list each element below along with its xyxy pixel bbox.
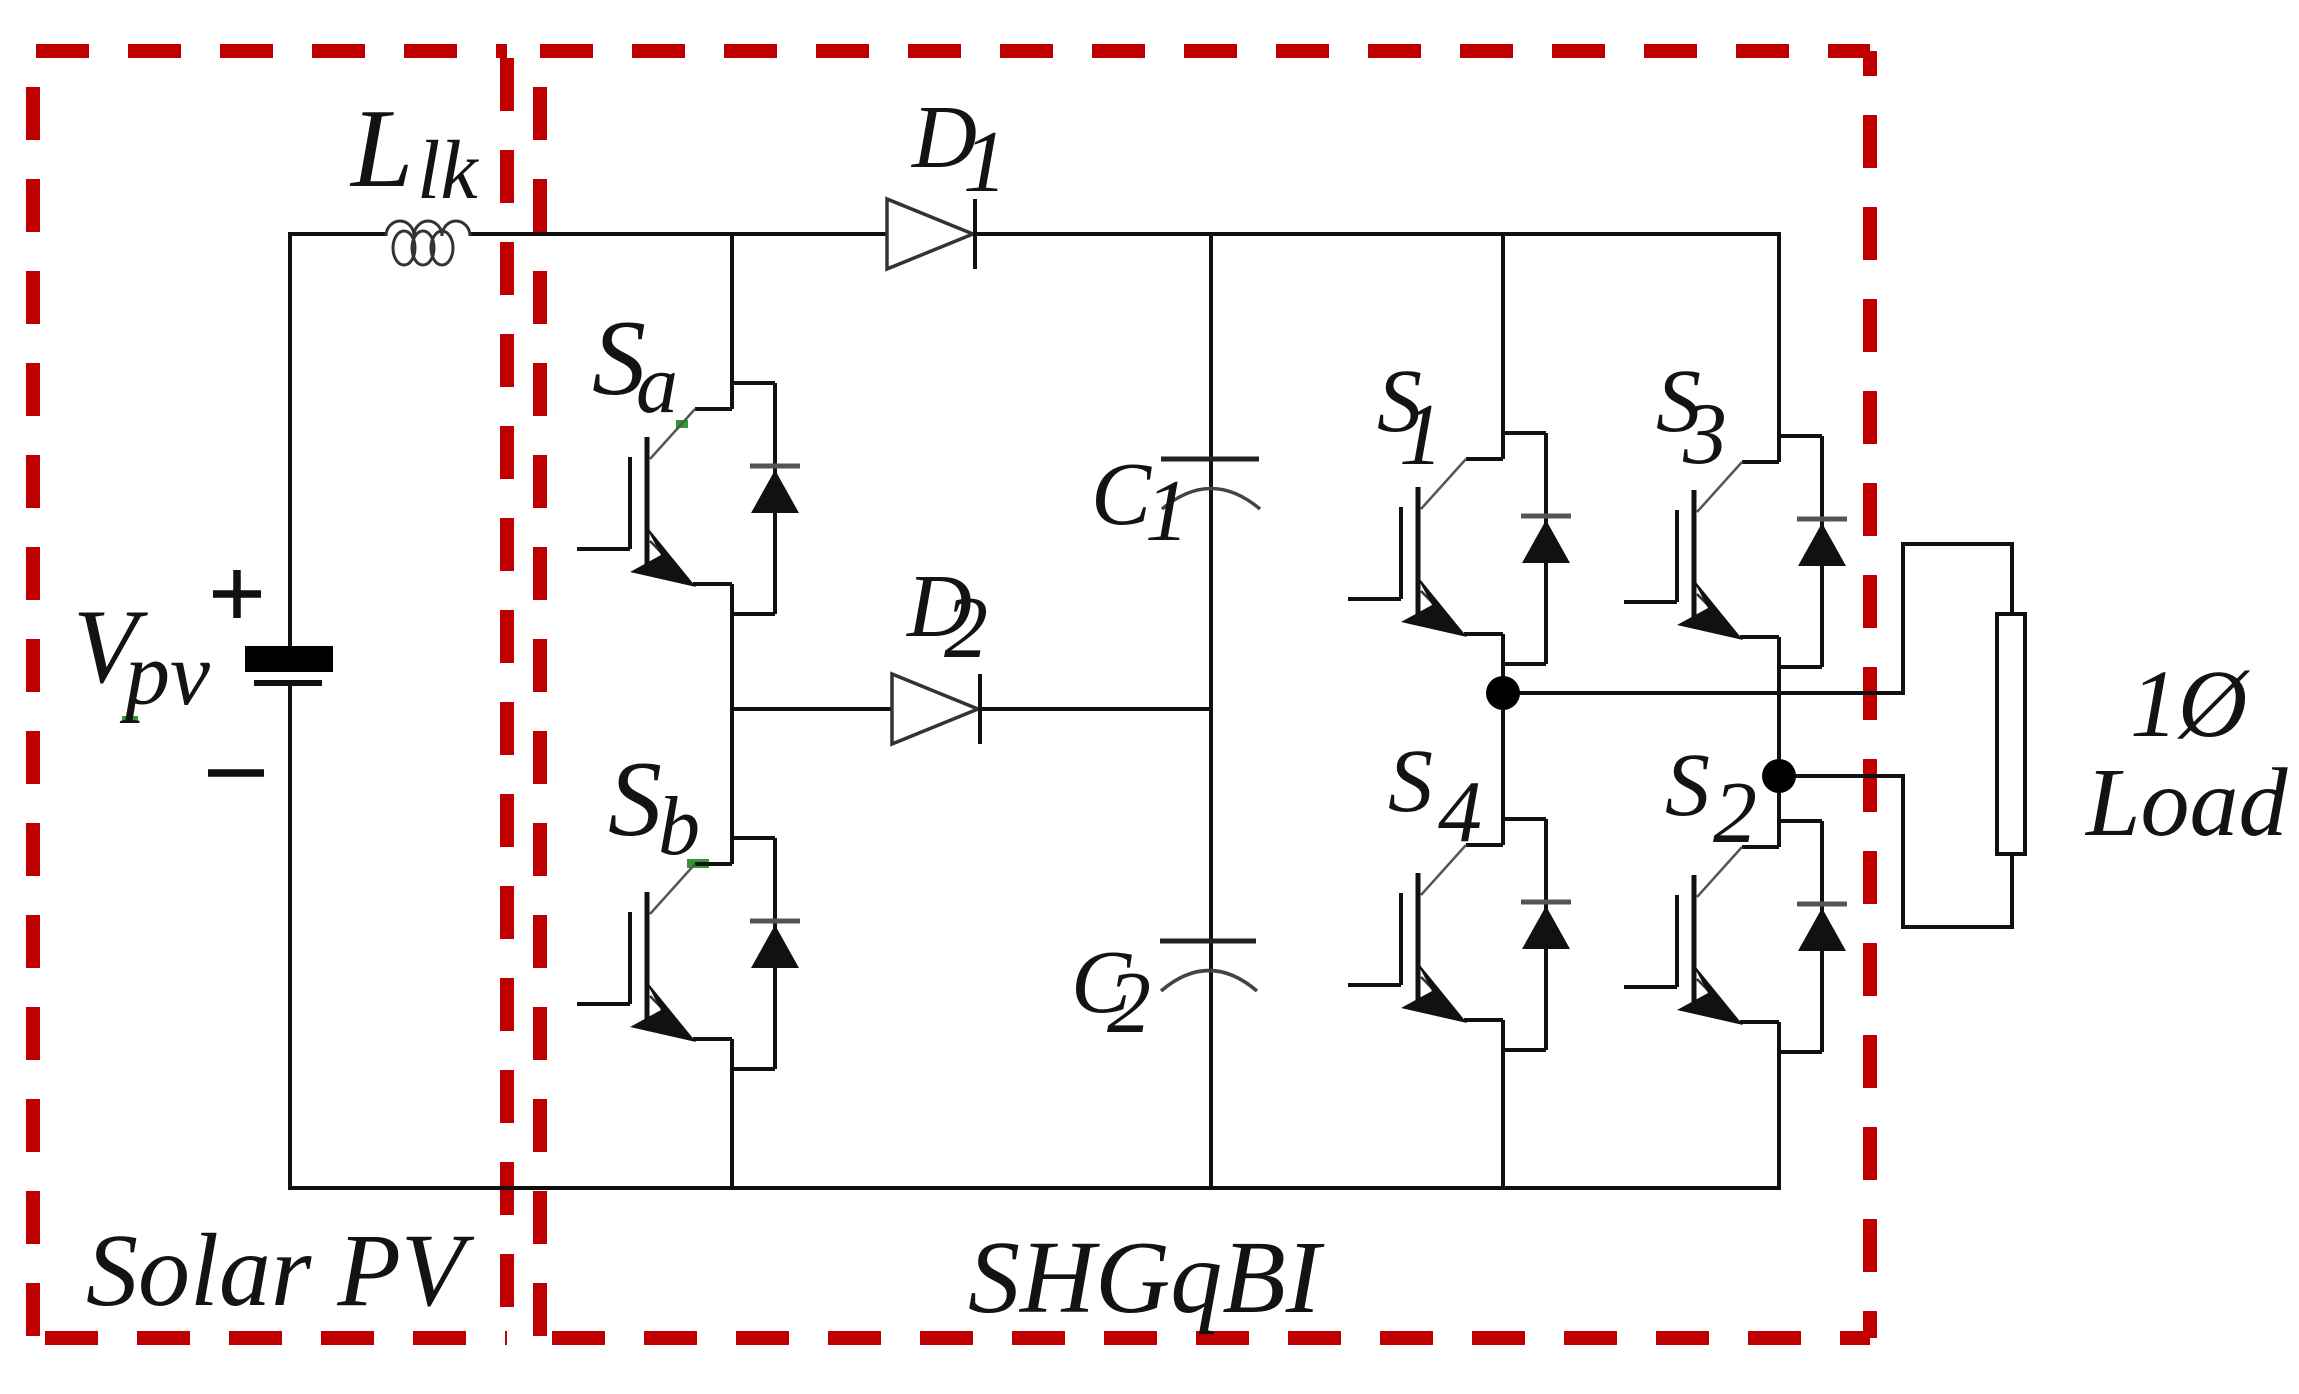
svg-text:1: 1 [1399, 387, 1443, 484]
svg-text:L: L [349, 87, 413, 211]
svg-text:1: 1 [1145, 463, 1189, 560]
svg-text:4: 4 [1438, 764, 1482, 861]
svg-text:S: S [608, 740, 662, 859]
svg-text:lk: lk [417, 124, 479, 217]
svg-text:1Ø: 1Ø [2130, 650, 2251, 757]
svg-text:SHGqBI: SHGqBI [968, 1220, 1325, 1335]
svg-text:2: 2 [944, 580, 988, 677]
svg-text:2: 2 [1107, 955, 1151, 1052]
svg-text:pv: pv [119, 625, 210, 724]
svg-text:S: S [1388, 732, 1433, 831]
svg-text:a: a [636, 338, 678, 431]
svg-text:3: 3 [1682, 386, 1727, 483]
svg-text:S: S [1665, 736, 1710, 835]
svg-text:1: 1 [963, 114, 1007, 211]
svg-text:b: b [658, 780, 700, 873]
svg-text:Load: Load [2084, 749, 2289, 857]
svg-text:2: 2 [1713, 765, 1757, 862]
svg-text:Solar PV: Solar PV [86, 1213, 475, 1328]
svg-text:C: C [1091, 445, 1152, 544]
